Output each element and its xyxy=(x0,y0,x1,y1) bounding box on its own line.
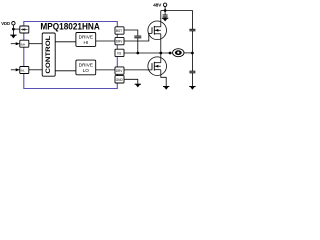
pin DRVL xyxy=(115,67,124,74)
wire 48V down xyxy=(164,7,166,16)
load M (motor) xyxy=(173,49,184,57)
node VDD junction xyxy=(12,28,15,31)
node SW at Q1/Q2 xyxy=(159,52,162,55)
wire CONTROL to DRIVE HI xyxy=(55,41,76,43)
wire DRIVE LO to pin DRVL xyxy=(96,69,115,71)
node C_BST / SW xyxy=(136,52,139,55)
wire rail bottom xyxy=(191,73,193,87)
svg-text:48V: 48V xyxy=(153,2,162,7)
wire blue top border xyxy=(24,22,118,27)
wire C_BST to SW xyxy=(137,38,139,53)
svg-text:GND: GND xyxy=(116,78,124,82)
svg-text:CONTROL: CONTROL xyxy=(45,36,52,74)
ground (VDD) xyxy=(10,35,16,38)
pin DRVH xyxy=(115,37,124,44)
svg-text:DRV: DRV xyxy=(116,69,124,73)
ground (Q2 source) xyxy=(163,87,169,90)
svg-text:VDD: VDD xyxy=(1,21,10,26)
wire 48V junction to right rail xyxy=(165,11,192,30)
block DRIVE LO xyxy=(76,60,96,75)
pin BST xyxy=(115,27,124,34)
wire rail mid xyxy=(191,31,193,71)
pin box INHI xyxy=(20,40,29,47)
wire Q2 source to ground (jog) xyxy=(161,70,166,87)
wire DRVL pin to Q2 gate xyxy=(124,68,152,71)
wire blue left+bottom border xyxy=(24,74,118,89)
IC package border (blue) xyxy=(24,22,118,89)
svg-text:BST: BST xyxy=(116,29,122,33)
wire VDD down xyxy=(12,25,14,36)
ground (GND pin) xyxy=(135,84,141,87)
svg-text:INL: INL xyxy=(21,69,26,73)
capacitor C_BST xyxy=(134,36,141,38)
capacitor C_IN (48V) xyxy=(163,15,168,17)
wire GND pin to ground xyxy=(124,79,138,84)
svg-text:HI: HI xyxy=(83,40,88,45)
wire Q1 source to SW xyxy=(160,34,162,53)
svg-text:LO: LO xyxy=(83,68,90,73)
block CONTROL xyxy=(42,33,55,76)
wire SW node line xyxy=(124,52,173,54)
wire 48V junction to Q1 drain xyxy=(161,10,165,12)
diode D1 (bootstrap) in box xyxy=(20,26,29,33)
wire CONTROL to DRIVE LO xyxy=(55,70,76,72)
transistor Q1 (high side) xyxy=(148,21,167,40)
capacitor C_OUT on rail lower xyxy=(189,71,195,73)
svg-text:DRIVE: DRIVE xyxy=(79,62,93,67)
pin box INLO xyxy=(20,67,29,74)
wire load to rail xyxy=(184,52,192,54)
48V terminal xyxy=(163,3,166,6)
svg-text:VS: VS xyxy=(117,52,121,56)
ground (C_IN) xyxy=(162,18,168,21)
VDD terminal xyxy=(12,22,15,25)
wire VDD junction to diode xyxy=(13,28,19,30)
pin VS xyxy=(115,49,124,56)
wire INLO to CONTROL xyxy=(29,69,42,71)
node load / rail xyxy=(191,52,194,55)
input arrow INHI xyxy=(11,42,20,45)
node SW before load xyxy=(169,52,172,55)
svg-text:MPQ18021HNA: MPQ18021HNA xyxy=(40,21,100,31)
wire blue left border segment 2 xyxy=(23,48,25,67)
wire blue right border stubs xyxy=(116,34,118,37)
wire Q1 drain to 48V rail xyxy=(160,11,162,27)
capacitor on rail upper xyxy=(189,29,195,31)
wire BST pin to bootstrap cap xyxy=(124,30,138,36)
input arrow INLO xyxy=(11,68,20,71)
transistor Q2 (low side) xyxy=(148,57,167,76)
svg-text:INH: INH xyxy=(21,42,26,46)
wire INHI to CONTROL xyxy=(29,43,42,45)
wire DRVH pin to Q1 gate xyxy=(124,33,152,41)
svg-text:DRIVE: DRIVE xyxy=(79,35,93,40)
ground (rail) xyxy=(189,87,195,90)
svg-text:DRV: DRV xyxy=(116,40,124,44)
node 48V junction xyxy=(164,9,167,12)
block DRIVE HI xyxy=(76,33,96,47)
wire blue left border segment 1 xyxy=(23,33,25,40)
pin GND xyxy=(115,76,124,83)
wire Q2 drain to SW xyxy=(160,53,162,63)
wire DRIVE HI to pin DRVH xyxy=(96,40,115,42)
